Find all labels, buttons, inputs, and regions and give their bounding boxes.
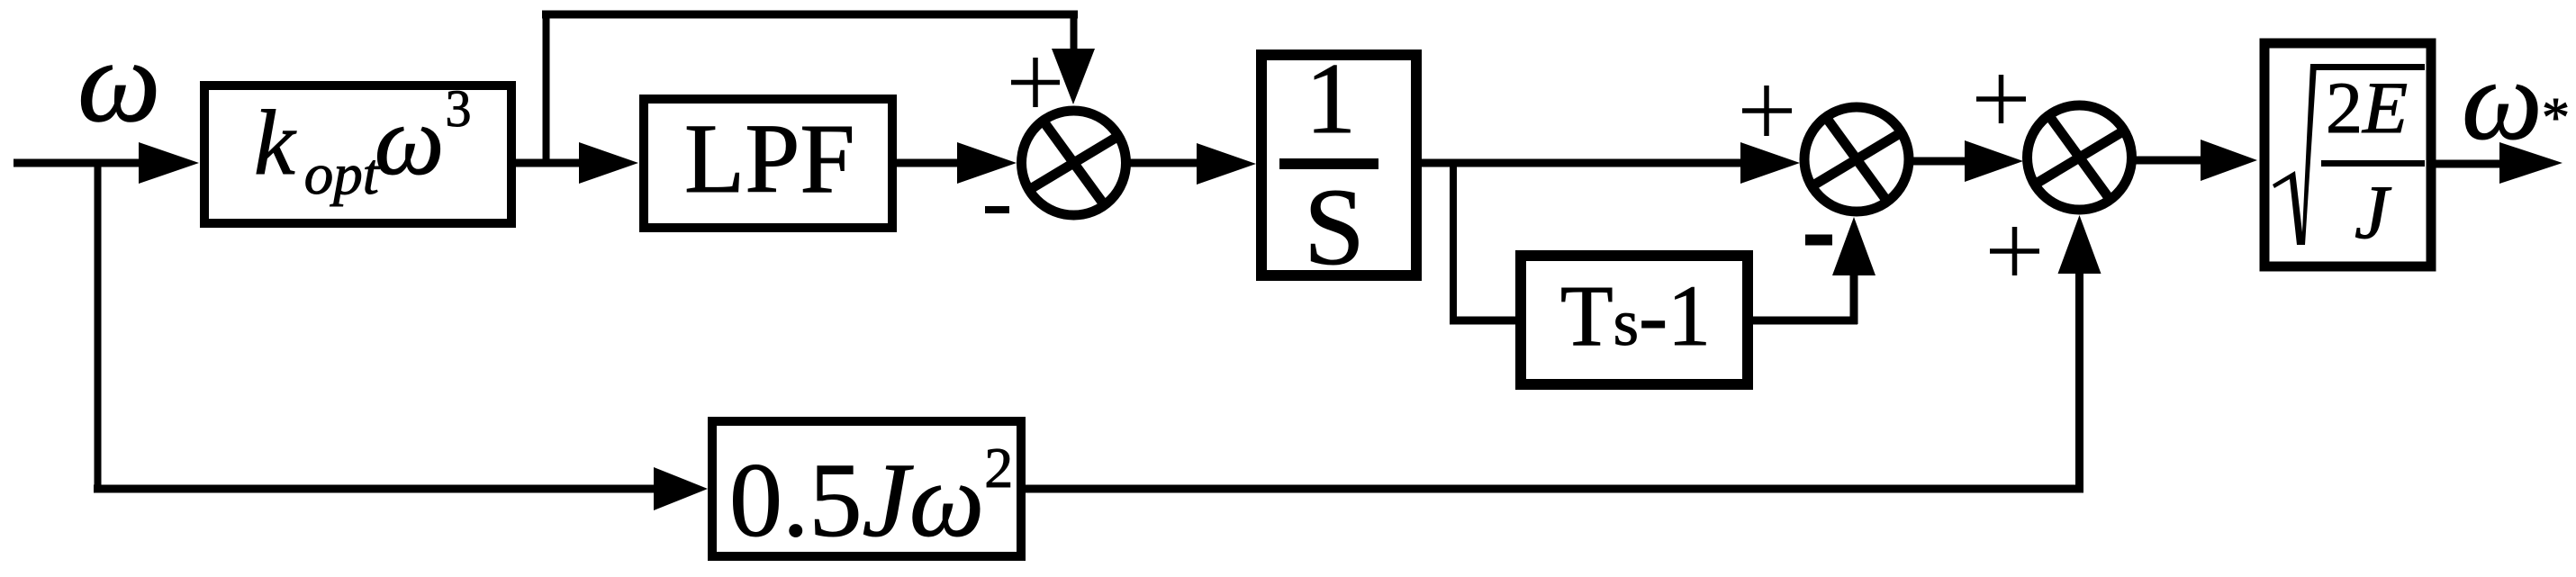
block 0.5Jw^2: [712, 421, 1021, 556]
minus sign at sum S1 left input: [985, 206, 1009, 213]
wire feedforward branch vertical: [543, 11, 550, 167]
svg-text:ω: ω: [77, 16, 161, 147]
wire bottom feedback horizontal right: [1026, 485, 2083, 493]
svg-text:1: 1: [1306, 43, 1356, 155]
wire into Ts-1 horizontal: [1450, 317, 1515, 325]
block integrator 1/S: [1261, 55, 1416, 275]
wire bottom feedback horizontal left: [94, 485, 658, 493]
summing junction S2: [1804, 107, 1909, 212]
block K1 k_opt*omega^3: [204, 86, 511, 223]
wire branch to Ts-1 vertical: [1450, 159, 1457, 324]
arrowhead into sqrt block: [2201, 140, 2257, 181]
wire feedforward top horizontal: [542, 11, 1078, 19]
svg-text:J: J: [2355, 170, 2392, 255]
wire up into sum S3 vertical: [2075, 270, 2083, 489]
plus sign at sum S1 top input: [1011, 58, 1060, 107]
radical vinculum bar: [2310, 64, 2425, 70]
wire input horizontal: [14, 159, 144, 167]
block Ts-1: [1521, 256, 1748, 384]
plus sign at sum S3 left input: [1976, 75, 2026, 123]
wire feedforward drop vertical: [1071, 11, 1078, 52]
arrowhead into sum S1: [957, 142, 1017, 184]
wire Ts-1 feedback vertical: [1850, 273, 1858, 324]
wire sqrt output: [2431, 160, 2503, 168]
wire 1/S output: [1422, 159, 1744, 167]
arrowhead output: [2499, 142, 2562, 184]
arrowhead into 0.5Jw^2 block: [654, 467, 708, 510]
block sqrt(2E/J): [2264, 43, 2431, 266]
arrowhead up into sum S3 bottom: [2058, 215, 2101, 274]
radical sign stroke: [2273, 64, 2317, 245]
fraction bar of 2E/J: [2321, 160, 2425, 167]
svg-text:LPF: LPF: [684, 104, 855, 213]
wire Ts-1 output horizontal: [1753, 317, 1857, 325]
svg-text:S: S: [1304, 167, 1365, 288]
wire S3 output: [2132, 157, 2202, 165]
plus sign at sum S2 left input: [1742, 86, 1792, 136]
arrowhead down into sum S1: [1052, 49, 1095, 104]
plus sign at sum S3 bottom input: [1990, 227, 2039, 275]
summing junction S3: [2028, 105, 2132, 210]
svg-text:2E: 2E: [2326, 67, 2408, 149]
svg-text:*: *: [2542, 87, 2570, 149]
wire input branch junction vertical: [95, 159, 102, 492]
svg-text:0.5Jω2: 0.5Jω2: [729, 436, 1013, 559]
wire S1 output: [1126, 159, 1200, 167]
wire S2 output: [1909, 158, 1968, 166]
arrowhead into LPF: [579, 142, 638, 184]
minus sign at sum S2 bottom input: [1805, 235, 1832, 246]
block LPF: [644, 99, 892, 228]
summing junction S1: [1022, 111, 1126, 215]
arrowhead into sum S2: [1740, 142, 1800, 184]
fraction bar of 1/S: [1279, 158, 1378, 169]
arrowhead into sum S3: [1965, 140, 2023, 182]
arrowhead into integrator 1/S: [1197, 143, 1256, 185]
wire LPF output: [897, 159, 960, 167]
wire k_opt output: [516, 159, 583, 167]
arrowhead into k_opt block: [139, 142, 199, 184]
arrowhead up into sum S2 bottom: [1832, 217, 1876, 275]
svg-text:ω: ω: [2462, 38, 2543, 164]
